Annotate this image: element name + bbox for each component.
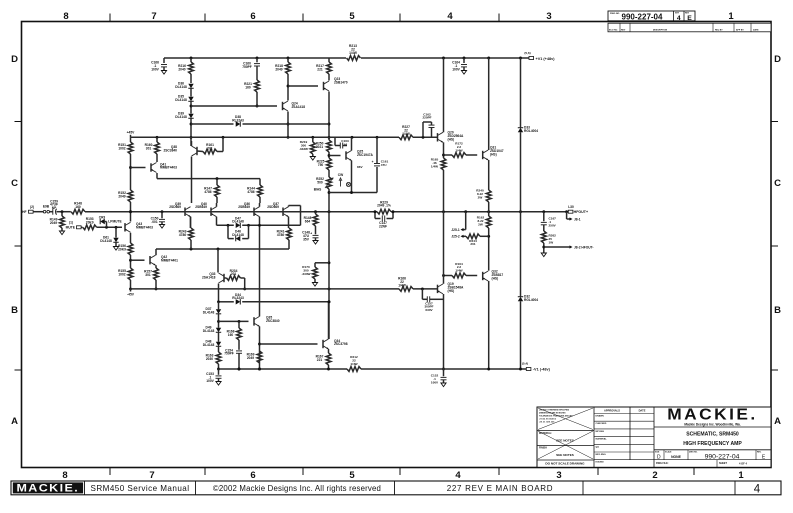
wire R161 up to +45V line — [222, 137, 224, 151]
svg-text:©2002 Mackie Designs Inc. All: ©2002 Mackie Designs Inc. All rights res… — [213, 484, 381, 493]
svg-text:2W: 2W — [478, 195, 483, 199]
svg-text:2W: 2W — [478, 222, 483, 226]
svg-text:MACKIE.: MACKIE. — [667, 406, 757, 423]
resistor R147 4786 — [216, 179, 218, 185]
svg-text:8: 8 — [63, 11, 68, 22]
wire Q33 collector down — [218, 284, 220, 302]
footer bar — [11, 481, 781, 495]
transistor Q31 2SD1047 — [482, 151, 484, 159]
svg-text:ISSUED: ISSUED — [596, 462, 605, 464]
svg-text:A: A — [774, 416, 781, 427]
svg-text:DL4148: DL4148 — [175, 85, 187, 89]
svg-text:3021: 3021 — [316, 145, 323, 149]
svg-text:(1): (1) — [69, 221, 73, 225]
capacitor C152 .1 100V below rail — [442, 368, 445, 371]
transistor Q24 2SA1418 — [282, 102, 284, 110]
svg-text:3: 3 — [546, 11, 551, 22]
wire R218 to Q24 — [287, 74, 289, 101]
diode D33 RGL4004 — [520, 58, 522, 128]
svg-text:CR3: CR3 — [99, 215, 106, 219]
wire Q24 collector down — [287, 112, 289, 138]
wire Q37 emitter jog — [288, 206, 290, 207]
svg-text:+V1 (+48v): +V1 (+48v) — [536, 57, 556, 61]
svg-text:2049: 2049 — [50, 221, 57, 225]
svg-text:DESCRIPTION: DESCRIPTION — [653, 29, 668, 31]
wire Q40 collector to R147 — [216, 203, 218, 207]
resistor R164 2.2 1/4W — [444, 275, 453, 277]
svg-text:1/4W: 1/4W — [455, 269, 462, 273]
svg-text:APP BY: APP BY — [736, 28, 744, 31]
svg-text:.333W: .333W — [299, 147, 308, 151]
svg-text:DATE: DATE — [639, 409, 646, 413]
svg-text:+45V: +45V — [127, 131, 136, 135]
svg-text:TOLERANCES: FRACTIONS ANGLES: TOLERANCES: FRACTIONS ANGLES — [539, 415, 573, 418]
svg-text:100V: 100V — [206, 379, 214, 383]
svg-text:HFOUT+: HFOUT+ — [574, 210, 588, 214]
LED CR3 LPMUTE — [106, 222, 108, 228]
resistor R262 25 1W — [541, 231, 546, 243]
svg-text:1/4W: 1/4W — [350, 362, 357, 366]
svg-text:SEE NOTES: SEE NOTES — [556, 453, 574, 457]
svg-text:5: 5 — [349, 470, 355, 481]
capacitor C163 .44 — [334, 137, 336, 145]
transistor Q19 2SB1548A (HS) — [437, 285, 439, 293]
bias test point circle — [346, 182, 350, 186]
svg-text:221: 221 — [317, 358, 323, 362]
svg-text:D: D — [11, 54, 18, 65]
svg-text:C: C — [774, 178, 781, 189]
transistor Q34 2SC3798 — [322, 340, 324, 348]
svg-text:(2): (2) — [30, 205, 34, 209]
svg-text:2SC3840: 2SC3840 — [163, 148, 177, 152]
svg-text:RL3243: RL3243 — [232, 118, 244, 122]
svg-text:1002: 1002 — [118, 272, 125, 276]
diode D48 DL4148 — [218, 332, 220, 342]
svg-text:160: 160 — [75, 205, 81, 209]
wire Q24 base line y106 — [191, 105, 277, 107]
svg-text:2SC1947A: 2SC1947A — [357, 153, 374, 157]
svg-text:2SB1470: 2SB1470 — [334, 80, 348, 84]
svg-text:4786: 4786 — [247, 190, 254, 194]
resistor R156 20K9 — [128, 243, 133, 255]
wire diode chain bottom — [190, 119, 192, 147]
size scale dwg-no row — [663, 450, 665, 460]
svg-text:2SA1418: 2SA1418 — [202, 276, 216, 280]
capacitor C162 220PF across R227 — [422, 122, 424, 137]
svg-text:RGL4004: RGL4004 — [524, 298, 538, 302]
svg-text:MMBT4403: MMBT4403 — [160, 166, 177, 170]
svg-text:4: 4 — [447, 11, 453, 22]
wire Q31 emitter down — [488, 160, 490, 190]
svg-text:FINISH: FINISH — [539, 447, 547, 450]
top title block dwg-no box — [608, 11, 695, 21]
svg-text:J8-1: J8-1 — [574, 217, 581, 221]
svg-text:DL4148: DL4148 — [100, 239, 112, 243]
svg-text:160: 160 — [228, 333, 234, 337]
svg-text:.XX .01 .XXX .005: .XX .01 .XXX .005 — [539, 422, 554, 424]
svg-text:1: 1 — [738, 470, 744, 481]
trimmer R252 500 BIAS — [328, 170, 330, 177]
svg-text:2SB649: 2SB649 — [238, 205, 250, 209]
svg-text:MP ENG: MP ENG — [596, 431, 605, 433]
resistor R149 2049 to ground — [61, 212, 63, 216]
zone tick marks bottom — [109, 468, 111, 476]
svg-text:2SB649: 2SB649 — [195, 205, 207, 209]
wire Q20 collector to rail — [443, 58, 445, 132]
svg-text:227 REV E MAIN BOARD: 227 REV E MAIN BOARD — [447, 484, 553, 493]
svg-text:MMBT4403: MMBT4403 — [136, 225, 153, 229]
svg-text:CHECKED: CHECKED — [596, 423, 607, 425]
resistor R241 4786 — [287, 228, 292, 240]
wire R155 to -45V node — [130, 280, 132, 289]
svg-text:(HS): (HS) — [448, 137, 455, 141]
svg-text:6: 6 — [250, 470, 255, 481]
wire mute line — [97, 226, 122, 228]
resistor R152 2049 — [128, 190, 133, 202]
svg-text:4786: 4786 — [179, 233, 186, 237]
svg-text:301: 301 — [146, 146, 152, 150]
transistor Q20 2SD2564A (HS) — [437, 133, 439, 141]
svg-text:B: B — [774, 305, 781, 316]
diode D38 RL3243 line — [191, 123, 234, 125]
svg-text:750: 750 — [318, 163, 324, 167]
connector stub J25-1 — [465, 212, 467, 230]
wire R152 to main line — [130, 202, 132, 222]
resistor R153 20K9 — [83, 225, 97, 230]
zone tick marks top — [109, 14, 111, 22]
svg-text:+: + — [372, 160, 374, 164]
svg-text:(5,6): (5,6) — [524, 51, 530, 55]
diode D39 DL4148 — [188, 114, 193, 119]
revision history strip — [608, 23, 771, 32]
transistor Q35 2SC3840 — [253, 317, 255, 325]
transistor Q25 2SC1947A — [345, 151, 347, 159]
diode D32 RGL4004 — [520, 212, 522, 297]
svg-text:2SD669: 2SD669 — [267, 205, 279, 209]
capacitor C157 300PF 630V feedback — [421, 289, 423, 299]
svg-text:100V: 100V — [431, 380, 439, 384]
svg-text:B: B — [11, 305, 18, 316]
wire R234 down to -feedback line — [244, 278, 246, 289]
wire -V rail y369 — [219, 368, 348, 370]
svg-text:DRAWN: DRAWN — [596, 415, 605, 418]
svg-text:DL4148: DL4148 — [232, 233, 244, 237]
svg-text:1/4W: 1/4W — [455, 148, 462, 152]
wire Q34 collector to spine — [328, 302, 330, 339]
svg-text:4: 4 — [754, 483, 761, 495]
svg-text:SCALE: SCALE — [665, 451, 672, 454]
transistor Q41 MMBT4403 — [150, 163, 152, 171]
bottom title block outline — [537, 407, 771, 467]
resistor R155 1002 — [128, 268, 133, 280]
svg-text:SIZE: SIZE — [655, 452, 660, 454]
transistor Q33 2SA1418 — [223, 274, 225, 282]
wire lower mirror line y249 — [156, 248, 289, 250]
diode D37 DL4148 — [218, 302, 220, 310]
svg-text:L30: L30 — [568, 205, 574, 209]
svg-text:CW: CW — [338, 173, 344, 177]
svg-text:.001: .001 — [151, 220, 158, 224]
capacitor C147 22NF parallel loop — [374, 212, 376, 219]
diode D35 DL4148 — [190, 89, 192, 97]
svg-text:SCHEMATIC, SRM450: SCHEMATIC, SRM450 — [686, 432, 739, 438]
svg-text:.333W: .333W — [302, 272, 311, 276]
svg-text:1/4W: 1/4W — [398, 283, 407, 287]
transistor Q40 2SB649 — [210, 208, 212, 216]
svg-text:J8-2 HFOUT-: J8-2 HFOUT- — [574, 245, 594, 249]
svg-text:(HS): (HS) — [490, 152, 497, 156]
svg-text:SHEET: SHEET — [719, 462, 728, 465]
svg-text:201: 201 — [207, 146, 213, 150]
capacitor C148 47U 35V — [315, 226, 317, 234]
svg-text:E: E — [687, 15, 692, 22]
diode D34 RL3243 — [236, 299, 241, 304]
connector stub J25-2 with R244 201 — [480, 235, 489, 237]
svg-text:750PF: 750PF — [224, 352, 234, 356]
svg-text:-45V: -45V — [127, 292, 135, 296]
resistor R218 2049 — [287, 58, 289, 62]
wire Q39 emitter down to R243 — [190, 217, 192, 228]
svg-text:-V1 (-48v): -V1 (-48v) — [533, 368, 551, 372]
resistor R168 160 with C154 750PF — [238, 321, 240, 328]
svg-text:LPMUTE: LPMUTE — [108, 220, 122, 224]
svg-text:APPROVALS: APPROVALS — [604, 409, 620, 413]
wire bias bottom line — [328, 189, 330, 212]
svg-text:750PF: 750PF — [242, 65, 252, 69]
svg-text:2030: 2030 — [206, 357, 213, 361]
wire R156 to R155 — [130, 255, 132, 268]
svg-text:4: 4 — [677, 15, 681, 22]
svg-text:201: 201 — [231, 272, 237, 276]
svg-text:990-227-04: 990-227-04 — [705, 453, 740, 460]
resistor R250 3021 in spine — [327, 140, 332, 152]
svg-text:MUTE: MUTE — [66, 226, 76, 230]
resistor R225 750 — [327, 158, 332, 170]
wire Q31 collector to rail — [488, 58, 490, 150]
resistor R240 8.22 2W — [486, 190, 491, 202]
svg-text:A: A — [11, 416, 18, 427]
svg-text:2049: 2049 — [118, 194, 125, 198]
resistor R157 301 — [155, 265, 157, 268]
transistor Q36 2SB649 — [253, 208, 255, 216]
capacitor C167 .1 250V — [543, 212, 545, 222]
svg-text:UNLESS OTHERWISE SPECIFIED: UNLESS OTHERWISE SPECIFIED — [539, 410, 570, 412]
wire main signal line — [85, 211, 377, 213]
wire spine x329 lower — [328, 212, 330, 339]
wire Q40 emitter down — [216, 217, 218, 226]
svg-text:HIGH FREQUENCY AMP: HIGH FREQUENCY AMP — [683, 441, 742, 447]
capacitor C150 .001 to ground — [161, 212, 163, 219]
svg-text:86V: 86V — [357, 165, 363, 169]
svg-text:MACKIE.: MACKIE. — [16, 483, 79, 494]
svg-text:D: D — [774, 54, 781, 65]
resistor R227 22 1/4W — [399, 135, 413, 140]
Mackie footer logo — [13, 482, 83, 493]
transistor Q39 2SD669 — [184, 208, 186, 216]
svg-text:630V: 630V — [425, 308, 433, 312]
svg-text:(HS): (HS) — [448, 289, 455, 293]
resistor R162 8.22 2W — [488, 212, 490, 216]
transistor Q37 2SD669 — [282, 208, 284, 216]
svg-text:4786: 4786 — [277, 233, 284, 237]
wire Q33 chain from mirror line — [217, 249, 219, 273]
wire Q38 emitter to Q39 collector — [191, 157, 193, 204]
zone tick marks left — [15, 121, 22, 123]
wire Q43 emitter down — [130, 233, 132, 243]
wire Q42 base line — [131, 259, 145, 261]
svg-text:BIAS: BIAS — [314, 188, 322, 192]
wire Q23 base line y86 — [288, 85, 318, 87]
svg-text:J25-2: J25-2 — [451, 235, 460, 239]
svg-text:DWG NO.: DWG NO. — [610, 13, 620, 15]
wire Q20 emitter — [443, 142, 445, 158]
svg-text:2SC3840: 2SC3840 — [266, 319, 280, 323]
wire Q23 collector down spine — [328, 92, 330, 141]
connector J8-1 stub — [566, 212, 568, 219]
svg-text:REV: REV — [621, 29, 626, 31]
capacitor C159 47UF NP — [52, 209, 54, 215]
wire Q41 collector to current mirror line — [156, 173, 158, 179]
connector J8-2 HFOUT- stub — [544, 246, 570, 248]
terminal -V1 (-48v) — [526, 368, 531, 371]
resistor R170 300 .333W to ground — [315, 262, 329, 264]
diode D61 DL4148 to ground — [115, 227, 117, 237]
resistor R219 300 .333W to ground — [312, 137, 314, 142]
svg-text:990-227-04: 990-227-04 — [622, 13, 663, 22]
resistor R213 22 1/4W on +V rail — [347, 56, 361, 61]
svg-text:+: + — [310, 231, 312, 235]
svg-text:35V: 35V — [303, 237, 310, 241]
wire Q34 base line y344 — [260, 343, 318, 345]
resistor R148b 664 — [315, 212, 317, 214]
wire R151 to R152 — [130, 154, 132, 190]
svg-text:3: 3 — [556, 470, 561, 481]
resistor R212 22 1/4W on -V rail — [347, 367, 361, 372]
wire +V rail y58 — [164, 57, 346, 59]
resistor R163 2030 — [218, 346, 220, 352]
wire Q36 emitter down — [259, 217, 261, 226]
svg-text:E9B: E9B — [43, 205, 50, 209]
svg-text:QA: QA — [596, 445, 600, 448]
svg-text:DL4148: DL4148 — [175, 115, 187, 119]
svg-text:C: C — [11, 178, 18, 189]
svg-text:1002: 1002 — [118, 146, 125, 150]
transistor Q38 2SC3840 — [196, 147, 198, 155]
wire Q32 emitter/collector verticals — [488, 281, 490, 369]
svg-text:7: 7 — [149, 470, 154, 481]
svg-text:MMBT4401: MMBT4401 — [161, 258, 178, 262]
wire main line right section — [391, 211, 568, 213]
diode D36 DL4148 — [190, 74, 192, 83]
svg-text:7: 7 — [151, 11, 156, 22]
tolerance notes box with X — [537, 430, 594, 432]
resistor R234 201 — [224, 277, 227, 279]
svg-text:DWG NO.: DWG NO. — [689, 452, 698, 454]
svg-text:2SD669: 2SD669 — [169, 205, 181, 209]
transistor Q23 2SB1470 — [328, 74, 330, 81]
svg-text:2049: 2049 — [275, 67, 282, 71]
svg-text:1/4W: 1/4W — [349, 51, 358, 55]
resistor R243 4786 — [190, 217, 192, 228]
svg-text:100V: 100V — [452, 67, 460, 71]
capacitor C161 47U — [376, 167, 378, 193]
wire Q35 base line y321.4 — [219, 320, 249, 322]
svg-text:RGL4004: RGL4004 — [524, 129, 538, 133]
wire feedback line y288.9 — [131, 288, 400, 290]
svg-text:MFG ENG: MFG ENG — [596, 454, 607, 456]
power -45V tag — [130, 289, 132, 292]
wire R221 to Q24 base line — [256, 92, 258, 106]
svg-text:DATE: DATE — [753, 28, 759, 31]
resistor R151 1002 — [130, 137, 132, 142]
wire bias line y301.8 — [219, 301, 234, 303]
svg-text:201: 201 — [470, 242, 475, 246]
svg-text:500: 500 — [317, 180, 323, 184]
svg-text:2SA1418: 2SA1418 — [292, 105, 306, 109]
svg-text:4: 4 — [455, 470, 461, 481]
svg-text:250V: 250V — [549, 223, 557, 227]
zone tick marks right — [771, 121, 778, 123]
svg-text:1: 1 — [728, 11, 734, 22]
wire Q37 collector down to R241 — [288, 217, 290, 228]
resistor R216 2040 — [190, 58, 192, 62]
resistor R217 221 — [328, 58, 330, 62]
svg-text:MATERIAL: MATERIAL — [596, 438, 608, 441]
svg-text:DL4148: DL4148 — [203, 310, 215, 314]
ground below R262 — [541, 253, 546, 257]
wire Q25 collector up — [351, 137, 353, 150]
svg-text:2049: 2049 — [247, 356, 254, 360]
wire current source line y178 — [157, 178, 260, 180]
terminal HFOUT+ L30 — [568, 210, 573, 213]
resistor R161 201 — [197, 150, 203, 153]
svg-text:REL BY: REL BY — [715, 29, 723, 31]
svg-text:5: 5 — [349, 11, 355, 22]
resistor R167 221 — [328, 349, 330, 353]
wire Q41 base tap — [131, 167, 146, 169]
wire Q38 collector up — [191, 141, 193, 146]
diode D47 DL4148 — [217, 224, 234, 226]
svg-text:.44: .44 — [343, 142, 348, 146]
wire +45V line y137 — [131, 136, 400, 138]
diode D46 DL4148 parallel — [227, 224, 230, 227]
svg-text:DL4148: DL4148 — [232, 220, 244, 224]
transistor Q32 2SB817 (HS) — [482, 272, 484, 280]
svg-text:8: 8 — [62, 470, 67, 481]
wire Q36 collector to R144 — [259, 203, 261, 207]
svg-text:DL4148: DL4148 — [203, 343, 215, 347]
diode D49 DL4148 — [218, 314, 220, 328]
capacitor C160 750PF — [256, 58, 258, 62]
svg-text:Mackie Designs Inc. Woodin: Mackie Designs Inc. Woodinville, Wa. — [684, 422, 740, 426]
svg-text:2040: 2040 — [178, 67, 185, 71]
svg-text:RL3243: RL3243 — [232, 296, 244, 300]
transistor Q42 MMBT4401 — [149, 256, 151, 264]
capacitor C166 .1 100V at rail left end — [163, 58, 165, 63]
svg-text:2049 .1%: 2049 .1% — [377, 204, 391, 208]
svg-text:2SC3798: 2SC3798 — [334, 342, 348, 346]
svg-text:SRM450 Service Manual: SRM450 Service Manual — [91, 484, 190, 493]
svg-text:1/4W: 1/4W — [431, 164, 438, 168]
svg-text:DIMENSIONS ARE IN INCHES: DIMENSIONS ARE IN INCHES — [539, 412, 566, 415]
svg-text:DWG FILE:: DWG FILE: — [656, 462, 669, 465]
resistor R165 .46 1/4W — [441, 158, 446, 170]
svg-text:20K9: 20K9 — [118, 247, 126, 251]
wire Q25 emitter down — [351, 161, 353, 193]
svg-text:(5,4): (5,4) — [522, 362, 528, 366]
svg-text:220PF: 220PF — [422, 116, 431, 120]
svg-text:REV.: REV. — [757, 452, 762, 454]
